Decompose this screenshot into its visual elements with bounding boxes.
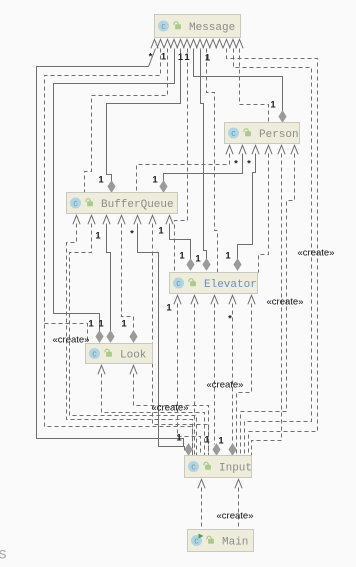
svg-text:«create»: «create» [53,335,90,346]
arrowhead into BufferQueue at x=106 [103,215,110,224]
arrowhead into Message at x=212.5 [209,39,216,48]
wire Input to Main create-right (dashed) [238,488,240,530]
arrowhead into BufferQueue at x=76 [73,215,80,224]
arrowhead into Elevator at x=214 [211,295,218,304]
wire BufferQueue-diamond2 to Person (solid) [164,154,243,182]
wire Input to BufferQueue loop b (dashed) [70,224,197,456]
arrowhead into BufferQueue at x=137 [134,215,141,224]
wire Elevator-top2 to Message (dashed) [207,49,218,273]
arrowhead into Message at x=239 [236,39,243,48]
svg-text:BufferQueue: BufferQueue [101,199,174,211]
aggregation diamond Input d3 [229,444,236,455]
class box Message [155,15,241,38]
svg-text:1: 1 [161,52,167,63]
wire Input to Person loop b (dashed) [241,154,295,456]
arrowhead into BufferQueue at x=169 [166,215,173,224]
svg-text:*: * [234,159,238,170]
wire Look-diamond1 to Message (solid) [54,49,175,332]
svg-text:C: C [161,24,166,32]
svg-text:*: * [228,314,232,325]
svg-text:1: 1 [166,303,172,314]
wire Input-diamond2 to Elevator (dashed) [214,304,216,445]
wire Input to Message outer right loop (dashed) [227,49,318,456]
arrowhead into Message at x=232.5 [229,39,236,48]
arrowhead into Message at x=167 [164,39,171,48]
wire Input to Person loop a (dashed) [252,154,282,456]
arrowhead into Input at x=201 [198,479,205,488]
aggregation diamond Look d3 [130,331,137,342]
wire Input to Message inner right loop (dashed) [234,49,312,456]
aggregation diamond Look d2 [107,331,114,342]
svg-text:*: * [247,159,251,170]
arrowhead into Person at x=242 [239,145,246,154]
svg-text:1: 1 [218,436,224,447]
arrowhead into Message at x=154 [151,39,158,48]
wire Input to Look b (dashed) [134,374,209,456]
arrowhead into Elevator at x=232 [229,295,236,304]
svg-text:1: 1 [205,53,211,64]
wire Input to BufferQueue left loop (dashed) [67,224,193,456]
svg-text:1: 1 [204,435,210,446]
svg-text:Message: Message [189,22,235,34]
wire BufferQueue-top to Message (dashed) [85,49,168,193]
svg-text:1: 1 [98,175,104,186]
svg-text:1: 1 [270,100,276,111]
wire Input to Elevator b (dashed) [194,304,196,456]
arrowhead into Input at x=238 [235,479,242,488]
svg-text:1: 1 [195,254,201,265]
class box Person [225,123,300,144]
svg-text:1: 1 [98,319,104,330]
svg-text:Input: Input [219,463,252,475]
wire Look-diamond2 to BufferQueue (solid) [107,224,111,332]
arrowhead into BufferQueue at x=152 [149,215,156,224]
arrowhead into Message at x=186.5 [183,39,190,48]
aggregation diamond Input d1 [185,444,192,455]
svg-text:C: C [92,352,97,360]
class box Elevator [170,273,258,294]
wire Input to Elevator a (dashed) [178,304,201,456]
aggregation diamond Person [279,111,286,122]
svg-text:1: 1 [88,319,94,330]
wire Input to Elevator c (dashed) [237,304,252,456]
arrowhead into Person at x=229 [226,145,233,154]
arrowhead into Look at x=101 [98,365,105,374]
aggregation diamond Elevator d1 [187,259,194,270]
wire Input to BufferQueue (dashed) [153,224,209,456]
wire Elevator-diamond1 to BufferQueue (solid) [170,224,191,260]
aggregation diamond Elevator d3 [234,259,241,270]
svg-text:*: * [149,52,153,63]
svg-text:1: 1 [95,231,101,242]
aggregation diamond Elevator d2 [203,259,210,270]
svg-text:C: C [191,465,196,473]
wire BufferQueue-top2 to Person via channel y164 (dashed) [137,154,230,193]
class box Look [86,344,153,364]
aggregation diamond BufferQueue d2 [160,181,167,192]
aggregation diamond BufferQueue d1 [108,181,115,192]
aggregation diamond Look d1 [96,331,103,342]
wire BufferQueue-diamond1 to Message (solid) [107,49,181,182]
wire Elevator-top to Message (dashed) [175,49,188,273]
wire Elevator-top3 to Person (dashed) [259,154,269,273]
arrowhead into Look at x=133 [130,365,137,374]
arrowhead into Message at x=226 [223,39,230,48]
class box Input [185,456,253,478]
arrowhead into Message at x=206 [203,39,210,48]
svg-text:1: 1 [158,226,164,237]
arrowhead into Person at x=255 [252,145,259,154]
svg-text:«create»: «create» [267,297,304,308]
class box BufferQueue [67,193,178,214]
svg-text:1: 1 [184,52,190,63]
arrowhead into Person at x=294 [291,145,298,154]
wire Input to Look a (dashed) [102,374,205,456]
arrowhead into Message at x=193 [190,39,197,48]
arrowhead into Elevator at x=177 [174,295,181,304]
arrowhead into Person at x=281 [278,145,285,154]
svg-text:1: 1 [178,52,184,63]
arrowhead into Person at x=268 [265,145,272,154]
arrowhead into Message at x=180 [177,39,184,48]
svg-text:C: C [194,539,199,547]
arrowhead into BufferQueue at x=121 [118,215,125,224]
wire Elevator-diamond3 to Person (solid) [238,154,256,260]
wire Input to Message second left loop (dashed) [45,49,193,456]
wire Elevator-diamond2 to Message (solid) [201,49,207,260]
svg-text:1: 1 [176,433,182,444]
svg-text:Main: Main [222,537,248,549]
wire Input-diamond1 to Message far-left loop (solid) [37,49,184,447]
svg-text:s: s [0,546,7,563]
svg-text:1: 1 [179,251,185,262]
arrowhead into Elevator at x=194 [191,295,198,304]
svg-text:C: C [176,281,181,289]
wire Person-top to Message (dashed) [240,49,269,123]
wire Input-diamond1 to BufferQueue (solid) [138,224,185,451]
wire Look-top entry from left channel (dashed) [45,324,88,344]
aggregation diamond Input d2 [213,444,220,455]
arrowhead into Message at x=173.5 [170,39,177,48]
wire Person-diamond to Message (solid) [194,49,283,112]
wire Input to Main create-left (dashed) [201,488,203,530]
arrowhead into Elevator at x=251 [248,295,255,304]
svg-text:*: * [130,229,134,240]
svg-text:1: 1 [121,319,127,330]
arrowhead into Message at x=219 [216,39,223,48]
arrowhead into BufferQueue at x=91 [88,215,95,224]
svg-text:C: C [231,131,236,139]
svg-text:«create»: «create» [298,248,335,259]
wire Look-diamond3 to BufferQueue (dashed) [122,224,134,332]
wire Input-diamond3 to Elevator (dashed) [232,304,234,445]
arrowhead into Message at x=160 [157,39,164,48]
svg-text:Look: Look [120,350,147,362]
svg-text:«create»: «create» [152,403,189,414]
svg-text:1: 1 [152,175,158,186]
svg-text:Elevator: Elevator [204,279,257,291]
svg-text:C: C [73,201,78,209]
svg-text:«create»: «create» [217,511,254,522]
arrowhead into Message at x=199.5 [196,39,203,48]
class box Main [188,530,254,552]
svg-text:«create»: «create» [207,380,244,391]
svg-text:1: 1 [225,251,231,262]
svg-text:Person: Person [259,129,299,141]
